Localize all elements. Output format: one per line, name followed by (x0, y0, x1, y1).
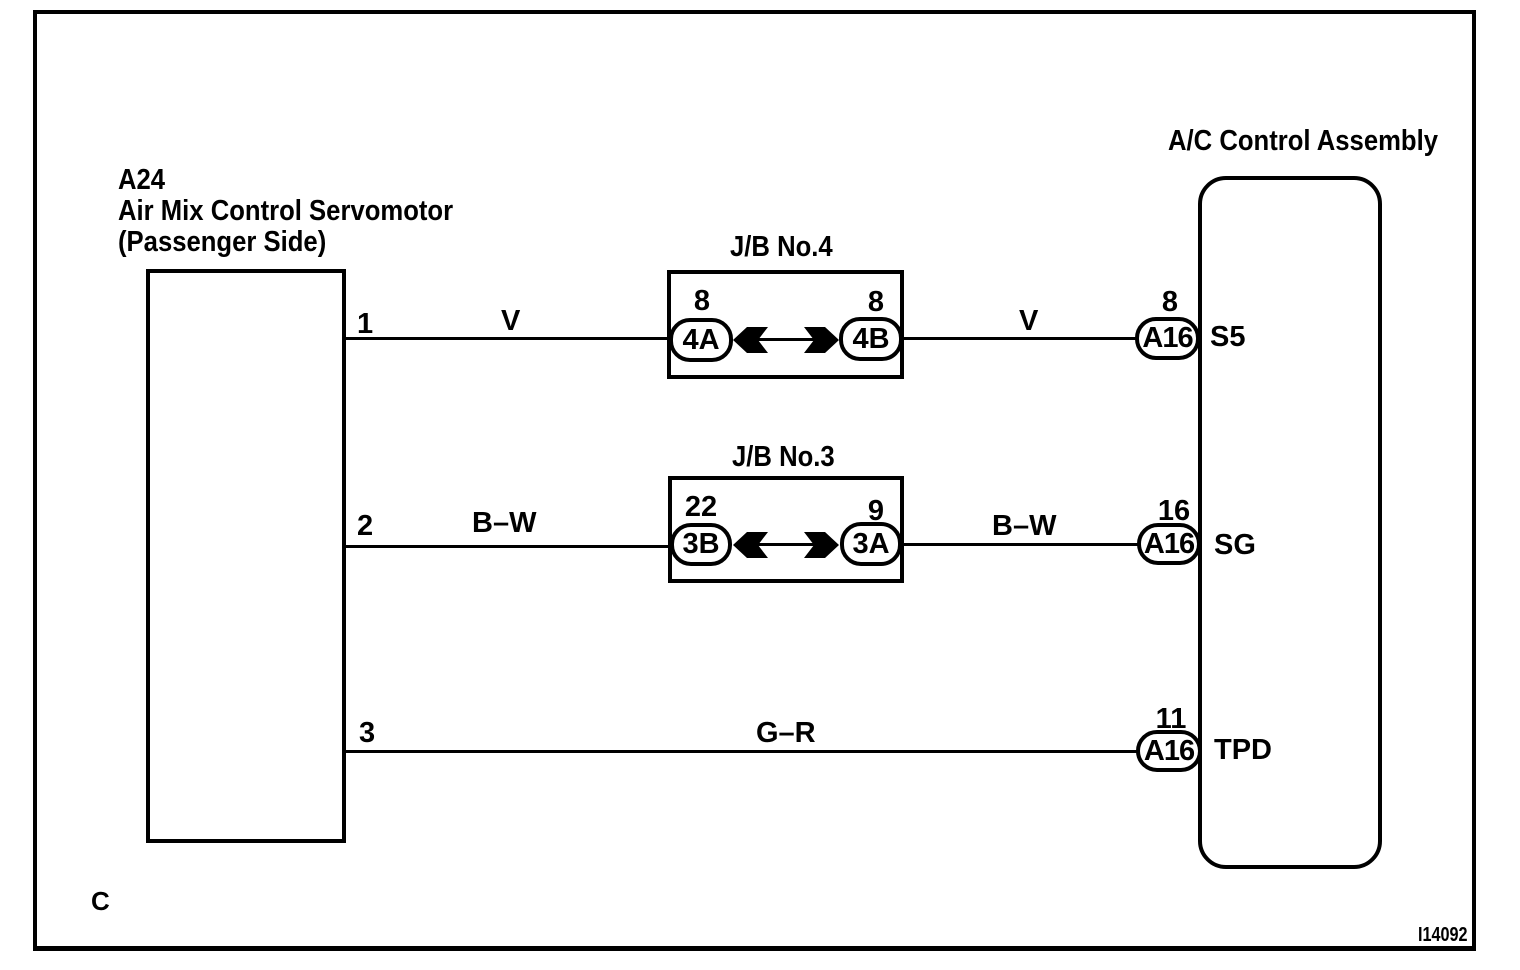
terminal number 3 (359, 719, 375, 748)
wire segment inside J/B No.4 between 4A and 4B (740, 338, 832, 341)
node S5 (1210, 323, 1245, 352)
pin number 8 above A16 (1162, 288, 1178, 317)
arrow into 3A (802, 530, 840, 560)
label Air Mix Control Servomotor (118, 197, 453, 226)
label A24 (118, 166, 165, 195)
component J/B No.3 box (668, 476, 904, 583)
arrow into 3B (732, 530, 770, 560)
component J/B No.4 box (667, 270, 904, 379)
connector A16 pin 16 (1137, 523, 1201, 565)
label (Passenger Side) (118, 228, 326, 257)
terminal number 1 (357, 310, 373, 339)
connector A16 pin 8 (1135, 317, 1200, 360)
pin number 9 above 3A (868, 497, 884, 526)
arrow into 4B (802, 325, 840, 355)
label A/C Control Assembly (1168, 127, 1438, 156)
wire color B-W (left) (472, 509, 536, 538)
arrow into 4A (732, 325, 770, 355)
wire 1 segment: J/B No.4 4B to A/C assembly (901, 337, 1139, 340)
node TPD (1214, 736, 1272, 765)
pin number 11 above A16 (1156, 705, 1187, 734)
component A/C Control Assembly box (1198, 176, 1382, 869)
wire color G-R (756, 719, 816, 748)
label J/B No.4 (730, 233, 833, 262)
wire 2 segment: J/B No.3 3A to A/C assembly (900, 543, 1140, 546)
pin number 8 above 4A (694, 287, 710, 316)
connector 3A (840, 522, 902, 566)
page index C (91, 888, 110, 914)
wire segment inside J/B No.3 between 3B and 3A (740, 543, 832, 546)
wire 2 segment: servomotor pin 2 to J/B No.3 3B (344, 545, 672, 548)
terminal number 2 (357, 512, 373, 541)
pin number 22 above 3B (685, 493, 717, 522)
wire color B-W (right) (992, 512, 1056, 541)
connector A16 pin 11 (1136, 730, 1202, 772)
figure number I14092 (1418, 925, 1468, 945)
component A24 Air Mix Control Servomotor box (146, 269, 346, 843)
connector 4A (669, 318, 733, 362)
connector 4B (839, 317, 903, 361)
wire 3 segment: servomotor pin 3 to A/C assembly (344, 750, 1138, 753)
wire color V (right) (1019, 307, 1038, 336)
pin number 16 above A16 (1158, 497, 1190, 526)
pin number 8 above 4B (868, 288, 884, 317)
connector 3B (670, 523, 732, 566)
label J/B No.3 (732, 443, 835, 472)
wire 1 segment: servomotor pin 1 to J/B No.4 4A (344, 337, 671, 340)
wire color V (left) (501, 307, 520, 336)
node SG (1214, 531, 1256, 560)
